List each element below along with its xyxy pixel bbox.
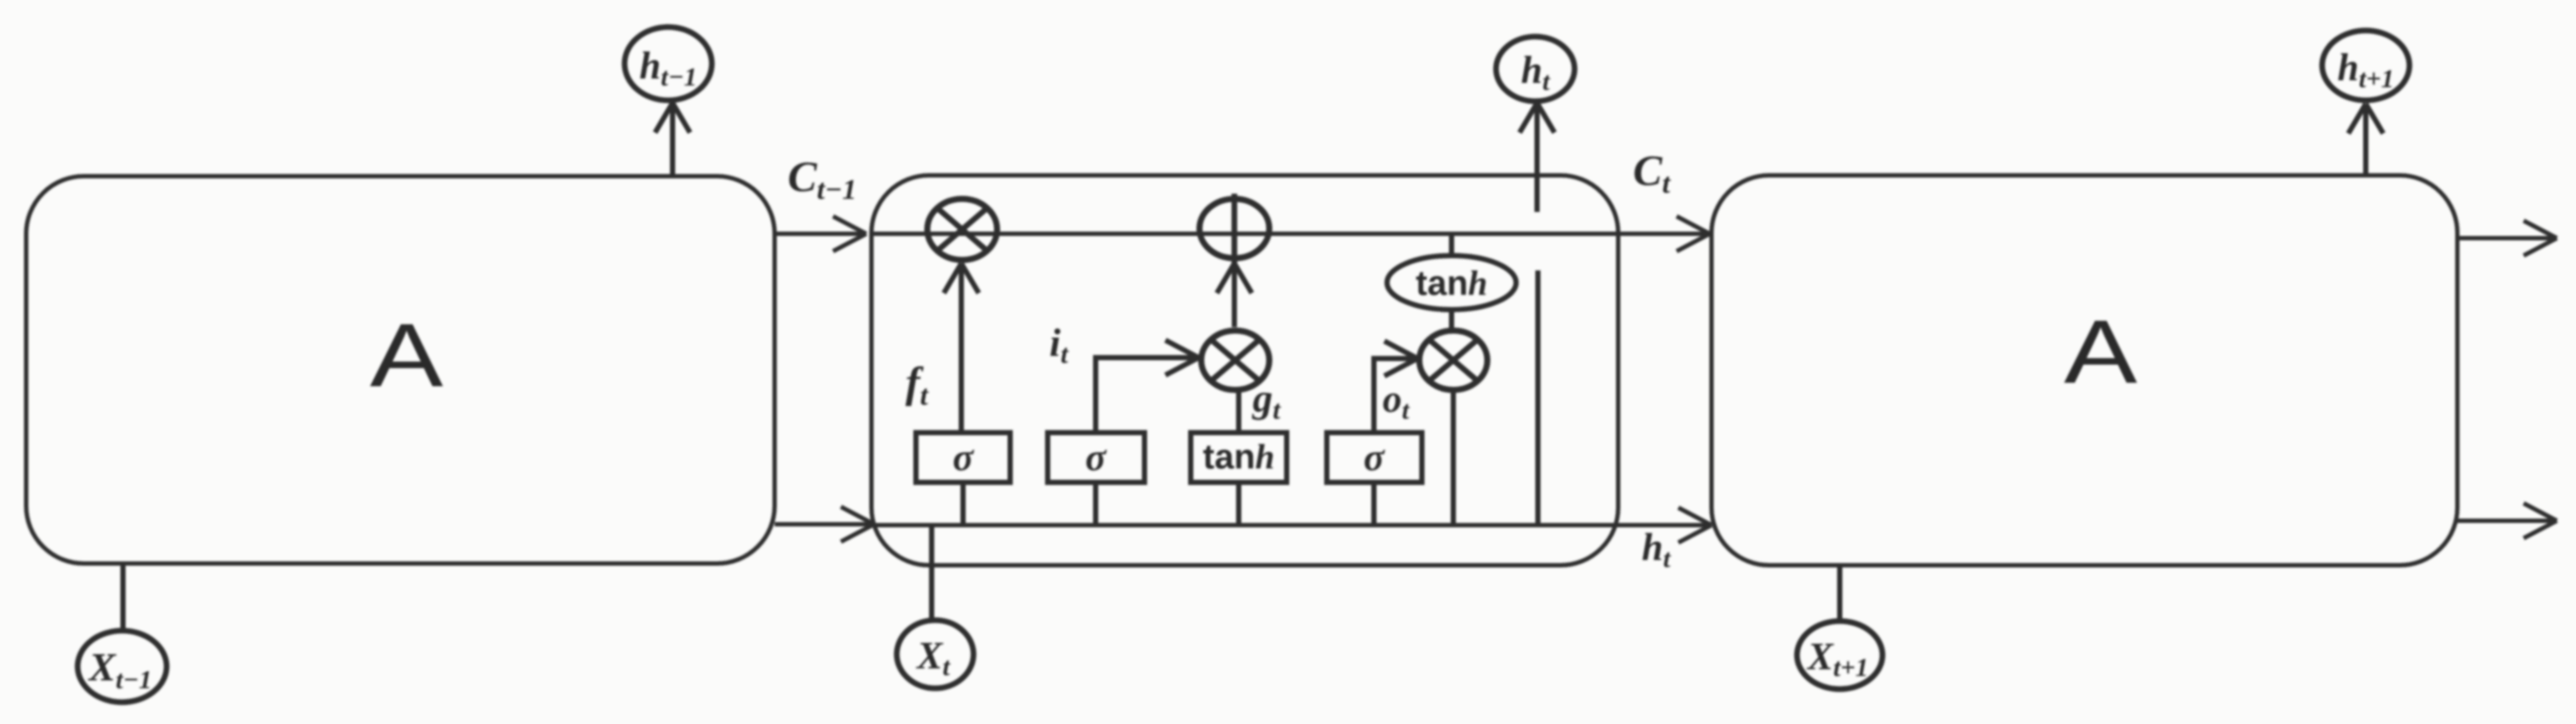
svg-text:Xt: Xt: [915, 634, 951, 681]
multiply gate (input x g): [1201, 331, 1269, 390]
svg-text:ht: ht: [1521, 49, 1551, 96]
left block A (t-1): [26, 176, 775, 563]
wires gate boxes to bottom line: [960, 482, 966, 525]
svg-text:A: A: [2064, 302, 2137, 402]
gate box sigma forget: [916, 433, 1010, 482]
wire X_t: [929, 525, 934, 621]
wire X_t+1: [1837, 565, 1842, 622]
node X_t: [897, 620, 974, 688]
svg-text:Xt+1: Xt+1: [1806, 635, 1869, 682]
node h_t-1: [625, 27, 712, 100]
svg-text:A: A: [370, 305, 443, 406]
gate box tanh: [1191, 433, 1287, 482]
wire tanh ellipse to multiply3: [1449, 310, 1454, 328]
wire multiply3 down to h line: [1451, 393, 1456, 525]
svg-text:σ: σ: [953, 436, 974, 479]
add gate: [1199, 199, 1269, 258]
wire sigma3 elbow arrow o_t: [1374, 341, 1418, 433]
LSTM cell box: [871, 175, 1618, 565]
wire C_t-1 arrow (left box to cell): [775, 216, 866, 251]
node X_t-1: [78, 631, 167, 702]
svg-text:ht: ht: [1642, 526, 1671, 573]
svg-text:ft: ft: [905, 358, 929, 412]
wire sigma2 elbow arrow i_t: [1096, 340, 1199, 433]
gate box sigma output: [1327, 433, 1422, 482]
svg-text:gt: gt: [1252, 376, 1281, 425]
wire h_t exit arrow: [1618, 508, 1712, 543]
cell state line C: [871, 232, 1618, 236]
svg-text:Ct: Ct: [1633, 146, 1671, 200]
wire h out arrow right: [2457, 503, 2557, 538]
wire X_t-1: [120, 563, 126, 631]
wire h_t-1 arrow: [655, 103, 690, 176]
node X_t+1: [1797, 621, 1882, 689]
gate box sigma input: [1048, 433, 1145, 482]
right block A (t+1): [1712, 175, 2457, 565]
svg-text:σ: σ: [1085, 436, 1107, 479]
svg-text:tanh: tanh: [1203, 437, 1274, 476]
svg-text:σ: σ: [1363, 436, 1385, 479]
svg-text:Ct−1: Ct−1: [788, 152, 857, 206]
wire C line to tanh ellipse: [1449, 234, 1454, 256]
bottom h line inside cell: [871, 523, 1618, 528]
multiply gate (forget): [927, 199, 997, 260]
wire multiply2 to add arrow: [1217, 263, 1252, 327]
wire h input arrow (left box to cell): [775, 507, 874, 542]
wire sigma1 to multiply, f_t: [944, 263, 979, 433]
node h_t+1: [2322, 31, 2409, 100]
svg-text:Xt−1: Xt−1: [87, 645, 152, 694]
tanh ellipse: [1387, 256, 1516, 310]
svg-text:ot: ot: [1383, 378, 1411, 425]
wire C_t exit arrow: [1618, 216, 1710, 251]
wire tanh box to multiply2: [1236, 392, 1241, 433]
wire C out arrow right: [2457, 221, 2557, 256]
wire h_t+1 arrow: [2348, 104, 2383, 175]
svg-text:it: it: [1049, 320, 1069, 369]
wire h branch up to h_t node: [1520, 103, 1554, 525]
multiply gate (output): [1419, 331, 1487, 390]
node h_t: [1496, 37, 1575, 101]
svg-text:ht+1: ht+1: [2338, 46, 2395, 93]
svg-text:tanh: tanh: [1416, 263, 1487, 303]
svg-text:ht−1: ht−1: [639, 44, 697, 92]
